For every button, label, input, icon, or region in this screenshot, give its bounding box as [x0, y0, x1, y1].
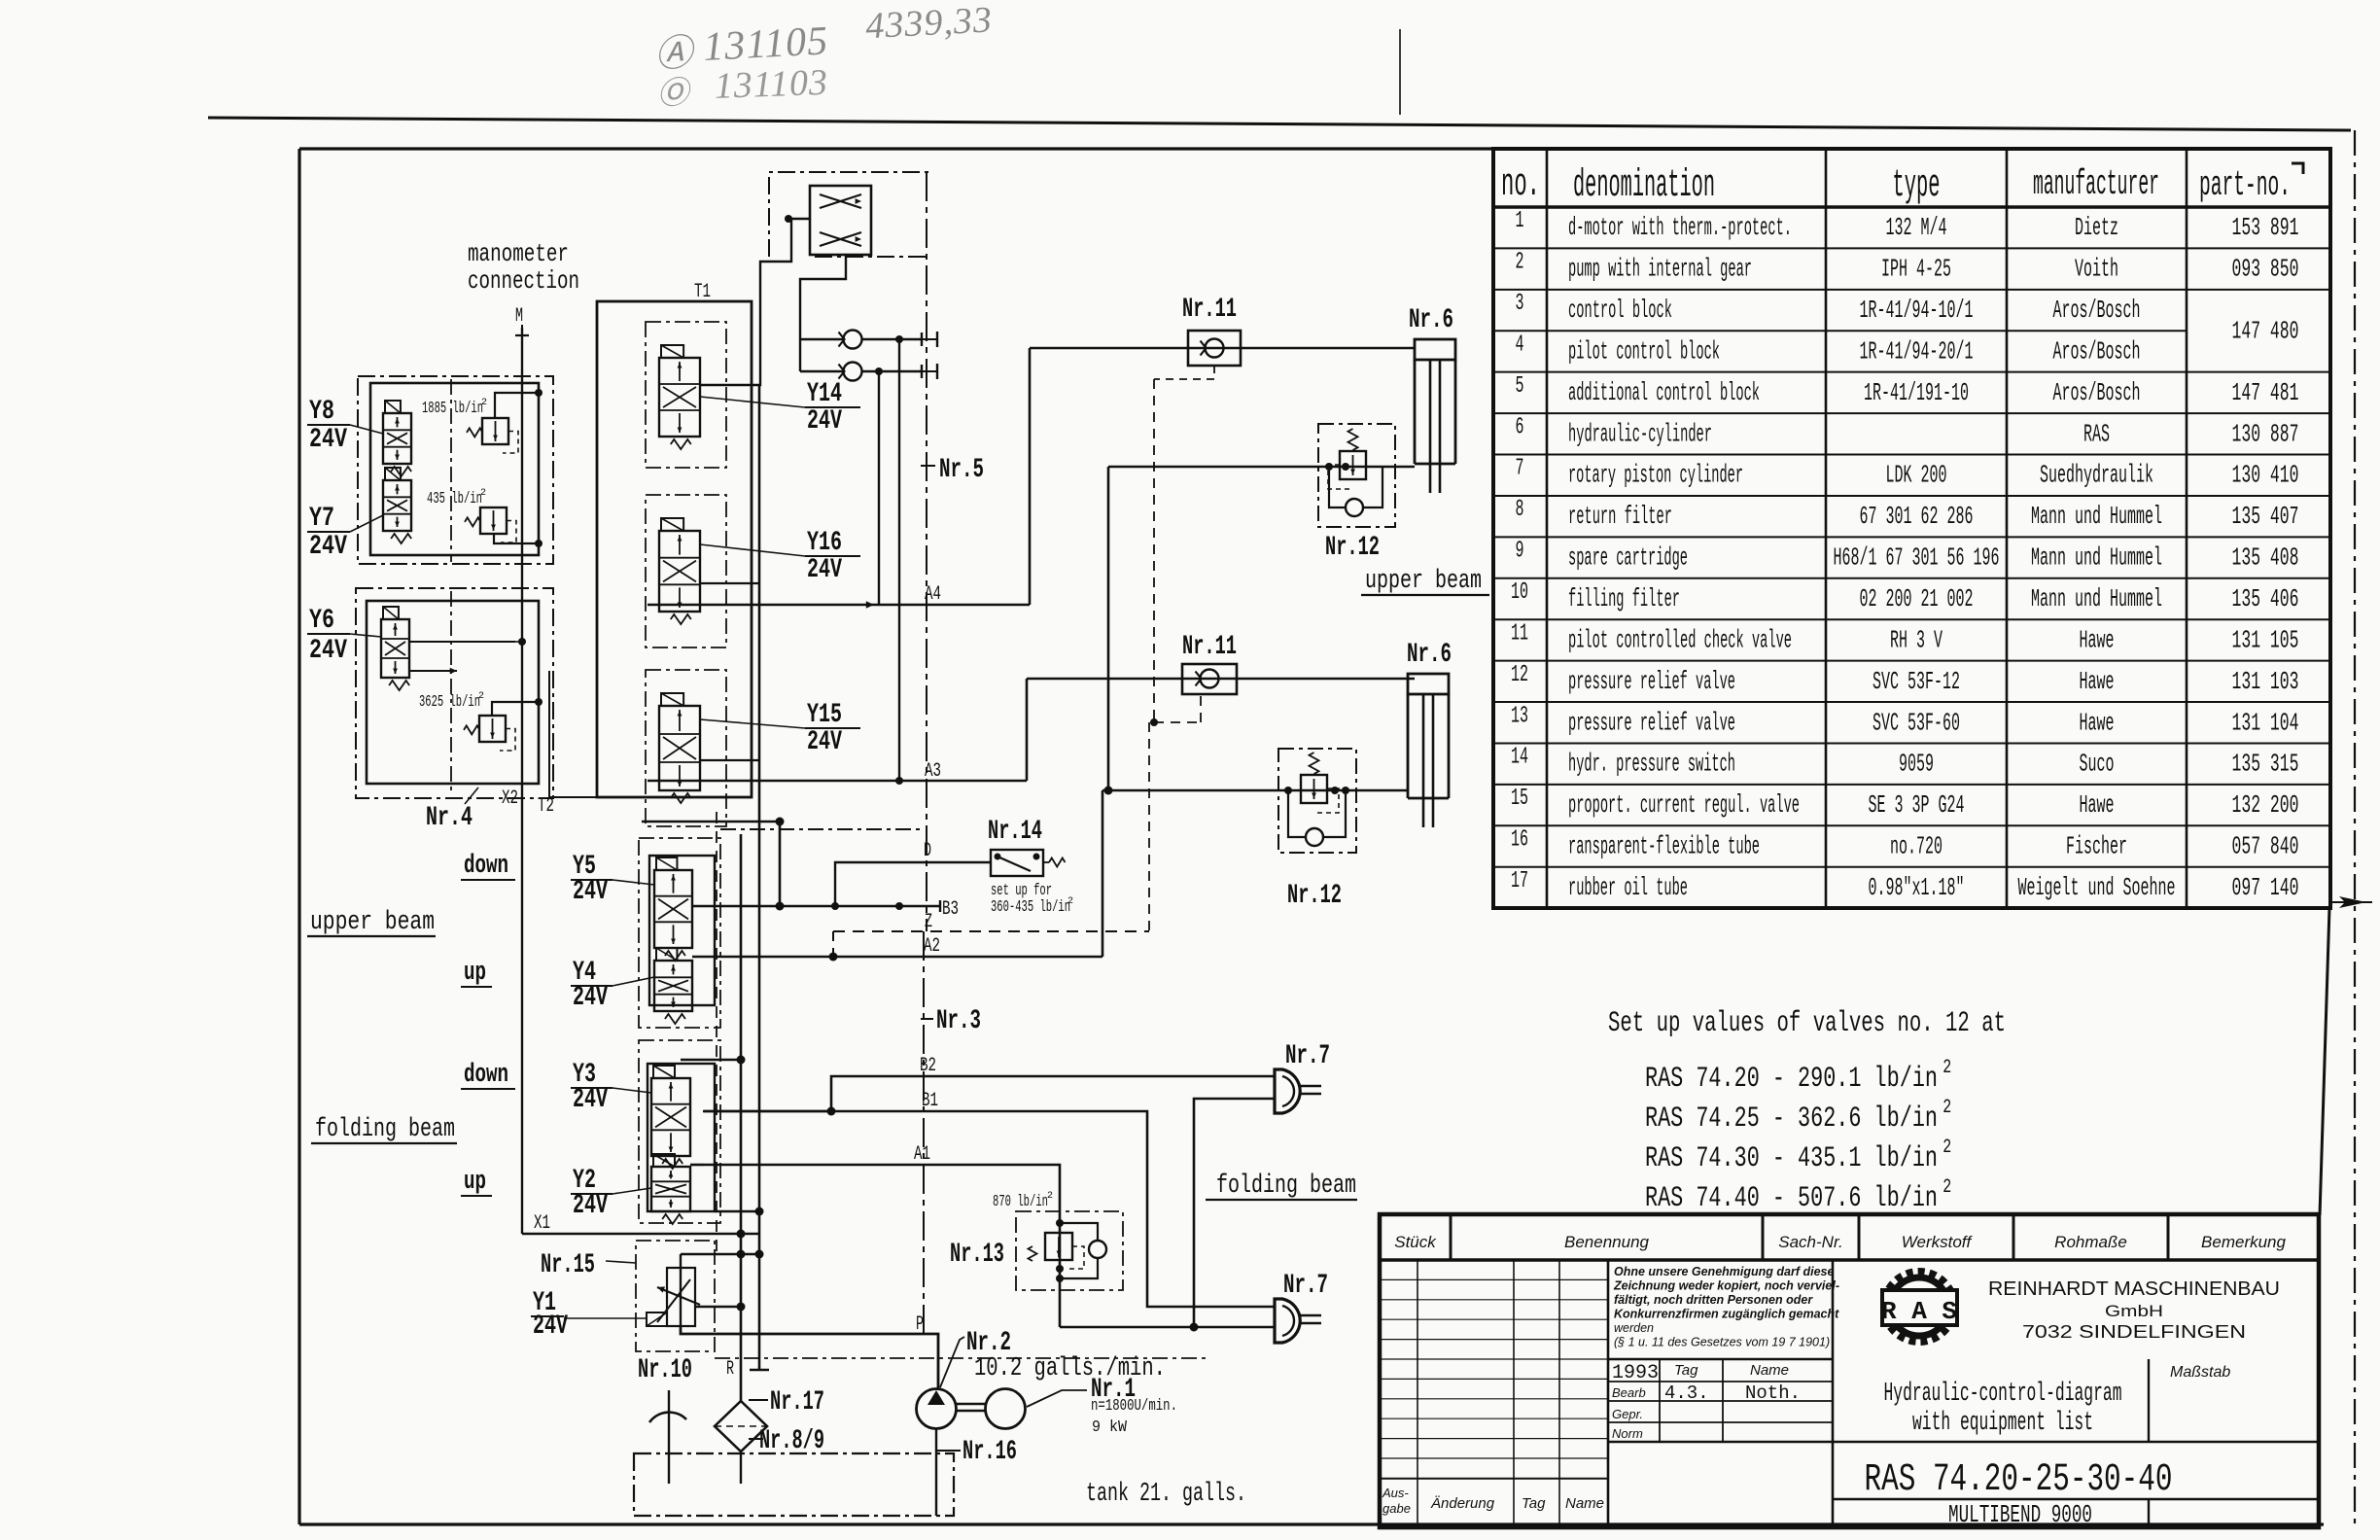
- svg-text:A2: A2: [924, 935, 940, 958]
- svg-text:131103: 131103: [714, 62, 829, 107]
- handwritten note 131103: [656, 62, 829, 111]
- label Nr.3: [921, 1018, 933, 1020]
- svg-text:Aros/Bosch: Aros/Bosch: [2053, 296, 2141, 325]
- svg-text:2: 2: [1516, 250, 1524, 276]
- svg-text:d-motor with therm.-protect.: d-motor with therm.-protect.: [1568, 213, 1792, 242]
- svg-text:Nr.7: Nr.7: [1283, 1271, 1328, 1301]
- handwritten note 131105 4339,33: [653, 0, 995, 76]
- svg-text:Name: Name: [1750, 1362, 1789, 1379]
- svg-text:4: 4: [1516, 332, 1524, 358]
- svg-text:11: 11: [1511, 620, 1528, 647]
- wire A1: [704, 1165, 1060, 1212]
- svg-text:9059: 9059: [1899, 750, 1934, 779]
- svg-text:Suedhydraulik: Suedhydraulik: [2040, 461, 2153, 490]
- svg-text:rubber oil tube: rubber oil tube: [1568, 873, 1688, 902]
- svg-text:Dietz: Dietz: [2075, 213, 2118, 242]
- svg-text:24V: 24V: [309, 532, 347, 562]
- riser upper Nr.12 to lower: [1107, 467, 1110, 790]
- svg-text:hydraulic-cylinder: hydraulic-cylinder: [1568, 419, 1712, 448]
- dash-dot enclosure Y5 Y4: [639, 838, 720, 1028]
- svg-text:filling filter: filling filter: [1568, 584, 1680, 613]
- svg-text:B1: B1: [922, 1090, 938, 1112]
- svg-text:spare cartridge: spare cartridge: [1568, 543, 1688, 573]
- svg-text:1R-41/94-20/1: 1R-41/94-20/1: [1860, 336, 1974, 366]
- svg-text:H68/1 67 301 56 196: H68/1 67 301 56 196: [1834, 543, 2000, 573]
- wire Y5 top link: [642, 821, 780, 822]
- svg-text:manufacturer: manufacturer: [2033, 164, 2159, 204]
- svg-text:Nr.6: Nr.6: [1409, 305, 1453, 335]
- svg-text:Nr.13: Nr.13: [950, 1240, 1004, 1270]
- check valve lower: [844, 363, 862, 381]
- svg-text:870 lb/in: 870 lb/in: [993, 1193, 1048, 1211]
- throttle check block: [810, 186, 871, 255]
- drawing frame: [299, 147, 2330, 150]
- svg-text:24V: 24V: [807, 727, 842, 757]
- svg-text:Hawe: Hawe: [2080, 790, 2115, 820]
- svg-text:Werkstoff: Werkstoff: [1902, 1233, 1974, 1251]
- svg-text:135 315: 135 315: [2232, 750, 2299, 779]
- wire throttle block to Y14 valve: [700, 219, 810, 385]
- svg-text:gabe: gabe: [1382, 1501, 1411, 1516]
- svg-text:Nr.6: Nr.6: [1407, 640, 1452, 670]
- svg-text:Y6: Y6: [309, 606, 334, 636]
- svg-text:Stück: Stück: [1394, 1233, 1437, 1251]
- svg-text:fältigt, noch dritten Personen: fältigt, noch dritten Personen oder: [1614, 1293, 1813, 1307]
- svg-text:24V: 24V: [807, 555, 842, 585]
- wire block bottom to bus: [715, 1210, 759, 1212]
- dashed Z drop to A2: [832, 931, 834, 957]
- svg-text:057 840: 057 840: [2232, 832, 2299, 861]
- svg-text:Nr.15: Nr.15: [541, 1250, 595, 1280]
- svg-text:24V: 24V: [309, 636, 347, 666]
- pilot dashed line lower Nr.11: [1148, 722, 1150, 931]
- svg-text:147 480: 147 480: [2232, 316, 2299, 345]
- svg-text:135 407: 135 407: [2232, 502, 2299, 531]
- svg-text:no.: no.: [1501, 163, 1540, 207]
- wire Y16 to bus: [700, 582, 759, 584]
- svg-text:131 105: 131 105: [2232, 625, 2299, 654]
- svg-text:Y16: Y16: [807, 528, 842, 558]
- svg-text:R: R: [726, 1358, 734, 1381]
- wire A2: [768, 956, 1102, 959]
- svg-text:097 140: 097 140: [2232, 873, 2299, 902]
- drawing title: [2148, 1359, 2150, 1442]
- svg-text:A3: A3: [925, 760, 941, 783]
- svg-text:RAS: RAS: [2083, 419, 2110, 448]
- wire A4 riser to upper Nr.11: [1029, 348, 1032, 605]
- svg-text:Noth.: Noth.: [1745, 1382, 1801, 1404]
- svg-text:24V: 24V: [573, 877, 608, 907]
- svg-text:A4: A4: [925, 583, 941, 606]
- svg-text:02 200 21 002: 02 200 21 002: [1860, 584, 1974, 613]
- wire B2: [831, 1076, 1275, 1111]
- Nr.5 dash-dot boundary: [769, 172, 928, 257]
- svg-text:Hawe: Hawe: [2080, 667, 2115, 696]
- svg-text:Bearb: Bearb: [1612, 1385, 1646, 1400]
- svg-text:up: up: [464, 959, 486, 988]
- wire D line: [835, 862, 991, 906]
- pressure switch Nr.14: [991, 850, 1043, 876]
- svg-text:9 kW: 9 kW: [1092, 1418, 1128, 1437]
- filter Nr.17 diamond: [715, 1401, 767, 1452]
- svg-text:131 104: 131 104: [2232, 708, 2299, 737]
- bus vertical line 2: [758, 385, 761, 1234]
- throttle symbol upper: [820, 194, 861, 208]
- svg-text:Nr.17: Nr.17: [770, 1387, 824, 1417]
- svg-text:pressure relief valve: pressure relief valve: [1568, 667, 1735, 696]
- svg-text:24V: 24V: [309, 425, 347, 455]
- svg-text:153 891: 153 891: [2232, 213, 2299, 242]
- svg-text:Fischer: Fischer: [2066, 832, 2127, 861]
- svg-text:connection: connection: [468, 266, 579, 296]
- svg-text:T2: T2: [538, 795, 554, 818]
- model name MULTIBEND 9000: [1833, 1498, 2319, 1501]
- svg-text:tank 21. galls.: tank 21. galls.: [1086, 1480, 1246, 1509]
- svg-text:rotary piston cylinder: rotary piston cylinder: [1568, 461, 1743, 490]
- svg-text:down: down: [464, 1061, 508, 1090]
- svg-text:Y15: Y15: [807, 700, 842, 730]
- label Nr.17: [749, 1399, 768, 1401]
- wire A3 riser: [1026, 679, 1029, 781]
- svg-text:24V: 24V: [807, 406, 842, 437]
- svg-text:folding beam: folding beam: [315, 1115, 455, 1144]
- wire B3 from valve: [692, 905, 768, 907]
- svg-text:werden: werden: [1614, 1321, 1654, 1335]
- label Nr.5: [921, 465, 935, 467]
- svg-text:Set up values of valves no. 12: Set up values of valves no. 12 at: [1608, 1007, 2006, 1040]
- svg-text:Bemerkung: Bemerkung: [2201, 1233, 2286, 1251]
- svg-text:24V: 24V: [533, 1312, 568, 1342]
- svg-text:093 850: 093 850: [2232, 255, 2299, 284]
- wire X-line bottom corner: [522, 1233, 759, 1235]
- svg-text:4339,33: 4339,33: [864, 0, 994, 47]
- svg-text:GmbH: GmbH: [2105, 1302, 2163, 1320]
- hydraulic cylinder Nr.6 body: [1415, 339, 1455, 360]
- pressure relief valve Nr.12 lower: [1278, 749, 1356, 853]
- table row lines: [1493, 247, 2330, 249]
- svg-text:Name: Name: [1565, 1495, 1604, 1512]
- table column line 2: [1825, 149, 1828, 908]
- svg-text:RH 3 V: RH 3 V: [1890, 625, 1942, 654]
- svg-text:M: M: [515, 305, 523, 328]
- svg-text:15: 15: [1511, 786, 1528, 812]
- riser to upper Nr.7: [1194, 1099, 1275, 1327]
- svg-text:Hydraulic-control-diagram: Hydraulic-control-diagram: [1884, 1380, 2122, 1409]
- svg-text:1993: 1993: [1612, 1362, 1659, 1384]
- bus vertical line 3: [779, 822, 782, 906]
- svg-text:pump with internal gear: pump with internal gear: [1568, 255, 1752, 284]
- relief valve 3625: [479, 716, 506, 742]
- svg-text:1R-41/191-10: 1R-41/191-10: [1864, 378, 1969, 407]
- svg-text:Y8: Y8: [309, 397, 334, 427]
- wire to lower Nr.11: [1027, 678, 1415, 681]
- rotary cylinder Nr.7 lower: [1275, 1299, 1300, 1343]
- solenoid valve Y2: [651, 1167, 690, 1211]
- svg-text:67 301 62 286: 67 301 62 286: [1860, 502, 1974, 531]
- wire to upper Nr.11: [1030, 347, 1415, 350]
- svg-text:RAS 74.25 - 362.6 lb/in: RAS 74.25 - 362.6 lb/in: [1645, 1102, 1938, 1136]
- svg-text:131 103: 131 103: [2232, 667, 2299, 696]
- svg-text:Ohne unsere Genehmigung darf d: Ohne unsere Genehmigung darf diese: [1614, 1265, 1834, 1278]
- wire throttle block to check valves: [800, 255, 846, 371]
- svg-text:SVC 53F-60: SVC 53F-60: [1872, 708, 1960, 737]
- check valve Nr.12 lower bypass: [1306, 828, 1323, 846]
- svg-text:Tag: Tag: [1522, 1495, 1546, 1512]
- svg-text:1885 lb/in: 1885 lb/in: [422, 400, 483, 418]
- RAS logo: [1881, 1272, 1957, 1342]
- drawing number RAS 74.20-25-30-40: [1833, 1441, 2319, 1444]
- solenoid valve Y3: [651, 1078, 690, 1156]
- svg-text:Nr.16: Nr.16: [962, 1437, 1017, 1467]
- svg-text:Nr.7: Nr.7: [1285, 1041, 1330, 1071]
- svg-text:R A S: R A S: [1881, 1297, 1957, 1326]
- wire A2 from valve: [692, 956, 768, 958]
- drawing frame right edge: [2320, 908, 2329, 1215]
- equipment table header row: [1493, 205, 2330, 208]
- Nr.4 upper solid block: [370, 383, 539, 555]
- svg-text:Maßstab: Maßstab: [2170, 1364, 2230, 1381]
- svg-text:Nr.14: Nr.14: [988, 817, 1042, 847]
- svg-text:2: 2: [1942, 1097, 1951, 1119]
- svg-text:Aros/Bosch: Aros/Bosch: [2053, 378, 2141, 407]
- svg-text:Hawe: Hawe: [2080, 708, 2115, 737]
- dash-dot boundary bottom: [715, 1357, 1206, 1359]
- svg-text:2: 2: [1047, 1191, 1053, 1202]
- wire Y3 top link: [681, 1059, 741, 1061]
- svg-text:down: down: [464, 852, 508, 881]
- dash-dot Y14 enclosure: [646, 322, 726, 468]
- throttle symbol lower: [820, 232, 861, 246]
- svg-text:denomination: denomination: [1573, 164, 1715, 208]
- svg-text:ransparent-flexible tube: ransparent-flexible tube: [1568, 832, 1760, 861]
- check valve Nr.13 bypass: [1089, 1241, 1106, 1258]
- svg-text:Weigelt und Soehne: Weigelt und Soehne: [2018, 873, 2176, 902]
- relief valve 1885: [482, 418, 508, 444]
- wire relief 435 to block edge: [494, 534, 539, 543]
- pilot controlled check valve Nr.11 upper: [1188, 331, 1241, 366]
- svg-text:1: 1: [1516, 208, 1524, 234]
- svg-text:Rohmaße: Rohmaße: [2054, 1233, 2127, 1251]
- svg-text:24V: 24V: [573, 1085, 608, 1115]
- pilot controlled check valve Nr.11 lower: [1182, 664, 1237, 694]
- svg-text:10.2 galls./min.: 10.2 galls./min.: [974, 1354, 1166, 1383]
- wire A2 riser: [1102, 790, 1104, 957]
- svg-text:Norm: Norm: [1612, 1426, 1643, 1441]
- svg-text:Nr.11: Nr.11: [1182, 295, 1237, 325]
- svg-text:RAS 74.20 - 290.1 lb/in: RAS 74.20 - 290.1 lb/in: [1645, 1063, 1938, 1096]
- svg-text:SVC 53F-12: SVC 53F-12: [1872, 667, 1960, 696]
- wire check lower drop: [878, 371, 880, 605]
- svg-text:no.720: no.720: [1890, 832, 1942, 861]
- svg-text:Änderung: Änderung: [1430, 1495, 1495, 1512]
- svg-text:6: 6: [1516, 414, 1524, 440]
- wire Y15 to bus: [700, 759, 759, 761]
- svg-text:130 410: 130 410: [2232, 461, 2299, 490]
- svg-text:RAS 74.30 - 435.1 lb/in: RAS 74.30 - 435.1 lb/in: [1645, 1142, 1938, 1175]
- svg-text:up: up: [464, 1168, 486, 1197]
- svg-text:Benennung: Benennung: [1564, 1233, 1650, 1251]
- svg-text:manometer: manometer: [468, 239, 569, 268]
- revision table left: [1417, 1260, 1418, 1527]
- svg-text:Z: Z: [925, 911, 932, 933]
- wire check lower to stub: [862, 370, 922, 372]
- svg-text:return filter: return filter: [1568, 502, 1672, 531]
- Nr.15 dash-dot enclosure: [636, 1241, 715, 1351]
- wire Y1 lead: [564, 1317, 647, 1319]
- table column line 4: [2186, 149, 2188, 908]
- svg-text:B3: B3: [942, 898, 959, 921]
- svg-text:pilot control block: pilot control block: [1568, 336, 1720, 366]
- pressure relief valve Nr.13: [1056, 1219, 1064, 1227]
- small vertical registration line top center: [1399, 29, 1401, 115]
- solenoid valve Y4: [654, 961, 692, 1011]
- bus2 termination: [758, 1234, 761, 1370]
- label Nr.1 leader: [1027, 1390, 1087, 1407]
- svg-text:Suco: Suco: [2080, 750, 2115, 779]
- svg-text:14: 14: [1511, 745, 1528, 771]
- solid block Y5 Y4: [649, 856, 715, 1005]
- solenoid valve Y7: [383, 480, 411, 531]
- svg-text:2: 2: [481, 398, 487, 408]
- wire lower Nr.12 line: [1102, 789, 1408, 792]
- wire relief 1885 to block edge: [495, 393, 539, 418]
- svg-text:1R-41/94-10/1: 1R-41/94-10/1: [1860, 296, 1974, 325]
- dash-dot Y16 enclosure: [646, 495, 726, 647]
- title block outer border: [1380, 1214, 2319, 1527]
- right edge arrow marker: [2339, 896, 2366, 908]
- right page dash-dot border: [2354, 130, 2356, 1528]
- svg-text:2: 2: [478, 691, 484, 702]
- Nr.13 dashed enclosure: [1016, 1211, 1123, 1290]
- date rows 1993 Tag Name: [1608, 1381, 1833, 1382]
- solenoid valve Y8: [383, 413, 411, 464]
- svg-text:16: 16: [1511, 827, 1528, 854]
- svg-text:n=1800U/min.: n=1800U/min.: [1091, 1397, 1177, 1416]
- svg-text:Voith: Voith: [2075, 255, 2118, 284]
- svg-text:2: 2: [480, 488, 486, 499]
- hydraulic cylinder Nr.6 body: [1408, 674, 1449, 694]
- wire Y6 side stub: [409, 641, 515, 643]
- svg-text:control block: control block: [1568, 296, 1672, 325]
- Nr.4 internal divider lower: [450, 591, 452, 795]
- bus vertical line 1: [740, 834, 743, 1401]
- svg-text:132 200: 132 200: [2232, 790, 2299, 820]
- svg-text:17: 17: [1511, 868, 1528, 894]
- svg-text:Gepr.: Gepr.: [1612, 1407, 1643, 1421]
- wire check upper to stub: [862, 338, 922, 340]
- svg-text:Mann und Hummel: Mann und Hummel: [2031, 584, 2162, 613]
- svg-text:4.3.: 4.3.: [1664, 1382, 1709, 1404]
- wire A3: [647, 780, 1027, 783]
- svg-text:Aus-: Aus-: [1382, 1486, 1409, 1500]
- svg-text:5: 5: [1516, 373, 1524, 400]
- Nr.3 dashed boundary vertical: [923, 931, 925, 1336]
- solenoid valve Y5: [654, 870, 692, 948]
- top rule line: [208, 118, 2351, 130]
- pump motor shaft: [957, 1403, 985, 1405]
- copyright notice cell: [1608, 1358, 1833, 1360]
- svg-text:135 408: 135 408: [2232, 543, 2299, 573]
- svg-text:IPH 4-25: IPH 4-25: [1881, 255, 1951, 284]
- table corner mark: [2292, 163, 2303, 174]
- svg-text:upper beam: upper beam: [310, 908, 435, 937]
- svg-text:type: type: [1893, 164, 1941, 208]
- svg-text:Hawe: Hawe: [2080, 625, 2115, 654]
- wire B2 B1 A1 from valves: [703, 1110, 831, 1113]
- svg-text:B2: B2: [920, 1055, 936, 1077]
- svg-text:A1: A1: [914, 1143, 930, 1166]
- svg-text:pilot controlled check valve: pilot controlled check valve: [1568, 625, 1792, 654]
- svg-text:7032 SINDELFINGEN: 7032 SINDELFINGEN: [2022, 1322, 2246, 1342]
- svg-text:REINHARDT MASCHINENBAU: REINHARDT MASCHINENBAU: [1988, 1278, 2280, 1300]
- svg-text:Zeichnung weder kopiert, noch: Zeichnung weder kopiert, noch verviel-: [1613, 1279, 1839, 1293]
- svg-text:24V: 24V: [573, 1191, 608, 1221]
- svg-text:10: 10: [1511, 579, 1528, 606]
- svg-text:3625 lb/in: 3625 lb/in: [419, 693, 480, 712]
- svg-text:24V: 24V: [573, 983, 608, 1013]
- bus dashed vertical: [716, 812, 717, 1254]
- svg-text:130 887: 130 887: [2232, 419, 2299, 448]
- wire pump to tank: [935, 1429, 937, 1516]
- table column line 3: [2006, 149, 2009, 908]
- dashed wire Z: [833, 930, 1149, 932]
- svg-text:135 406: 135 406: [2232, 584, 2299, 613]
- svg-text:2: 2: [1067, 896, 1073, 907]
- svg-text:Nr.4: Nr.4: [426, 803, 472, 833]
- svg-text:additional control block: additional control block: [1568, 378, 1760, 407]
- svg-text:Nr.12: Nr.12: [1325, 533, 1380, 563]
- pressure relief valve Nr.12 upper: [1318, 424, 1395, 527]
- svg-text:Mann und Hummel: Mann und Hummel: [2031, 502, 2162, 531]
- solenoid valve Y15: [659, 706, 700, 790]
- svg-text:435 lb/in: 435 lb/in: [427, 490, 482, 508]
- wire P line: [681, 1326, 938, 1389]
- svg-text:Nr.8/9: Nr.8/9: [759, 1426, 824, 1456]
- title block header row: [1380, 1258, 2319, 1262]
- svg-text:T1: T1: [694, 281, 711, 303]
- svg-text:360-435 lb/in: 360-435 lb/in: [991, 898, 1070, 917]
- svg-text:pressure relief valve: pressure relief valve: [1568, 708, 1735, 737]
- svg-text:13: 13: [1511, 703, 1528, 729]
- wire A4: [647, 604, 1030, 607]
- wire A1 through Nr.13: [1059, 1212, 1062, 1327]
- svg-text:Y14: Y14: [807, 379, 842, 409]
- check valve upper: [844, 331, 862, 349]
- svg-text:2: 2: [1942, 1137, 1951, 1159]
- dash-dot Y15 enclosure: [646, 670, 726, 826]
- Nr.4 upper dash-dot enclosure: [358, 376, 553, 564]
- equipment table outer border: [1493, 149, 2330, 908]
- svg-text:Nr.12: Nr.12: [1287, 881, 1342, 911]
- check valve Nr.12 upper bypass: [1346, 499, 1363, 516]
- wire B3: [768, 905, 940, 907]
- svg-text:7: 7: [1516, 456, 1524, 482]
- svg-text:folding beam: folding beam: [1216, 1172, 1356, 1201]
- table column line 1: [1546, 149, 1549, 908]
- svg-text:hydr. pressure switch: hydr. pressure switch: [1568, 750, 1735, 779]
- dash-dot enclosure Y3 Y2: [639, 1040, 720, 1223]
- rotary cylinder Nr.7 upper: [1275, 1069, 1300, 1113]
- wire upper Nr.12 line: [1108, 466, 1415, 469]
- Nr.4 internal divider upper: [450, 379, 452, 562]
- wire Y6 relief to block edge: [492, 702, 539, 716]
- svg-text:8: 8: [1516, 497, 1524, 523]
- svg-text:147 481: 147 481: [2232, 378, 2299, 407]
- wire M X-line vertical: [521, 328, 523, 1234]
- wire B1: [704, 1111, 1275, 1307]
- svg-text:2: 2: [1942, 1057, 1951, 1079]
- svg-text:Tag: Tag: [1674, 1362, 1698, 1379]
